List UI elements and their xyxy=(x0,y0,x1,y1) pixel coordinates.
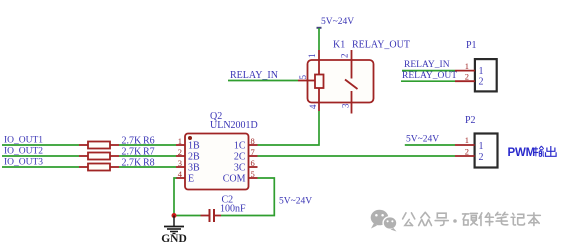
svg-text:5V~24V: 5V~24V xyxy=(279,197,312,207)
svg-text:5V~24V: 5V~24V xyxy=(321,17,354,27)
svg-text:GND: GND xyxy=(161,233,187,244)
hanzi ben (本) xyxy=(528,213,541,226)
svg-text:ULN2001D: ULN2001D xyxy=(210,120,258,131)
pin 5 internal wire xyxy=(308,80,316,82)
pin 8 stub xyxy=(249,144,258,146)
wire RELAY_IN to P1 pin1 xyxy=(402,70,455,72)
svg-text:2: 2 xyxy=(465,72,469,82)
svg-text:1B: 1B xyxy=(188,141,200,152)
pin 1 stub xyxy=(176,144,185,146)
svg-text:1: 1 xyxy=(479,141,484,152)
middle dot xyxy=(453,219,457,223)
pin 6 stub xyxy=(249,166,258,168)
coil K1 xyxy=(315,75,324,89)
switch contact wire xyxy=(351,91,353,103)
svg-text:3: 3 xyxy=(341,103,351,108)
connector P1 xyxy=(455,40,497,91)
watermark text 公众号·硬件笔记本 xyxy=(403,212,541,225)
wire RELAY_IN to K1 pin5 xyxy=(228,80,298,82)
svg-text:3: 3 xyxy=(178,158,182,168)
pin 5 stub xyxy=(249,177,258,179)
wire junction to C2 xyxy=(174,215,201,217)
svg-text:1: 1 xyxy=(465,61,469,71)
wire R6 to U pin1 xyxy=(119,144,176,146)
svg-text:2: 2 xyxy=(178,147,182,157)
svg-text:2C: 2C xyxy=(234,152,246,163)
svg-text:IO_OUT1: IO_OUT1 xyxy=(4,136,43,146)
pin 1 stub xyxy=(318,50,320,60)
junction dot xyxy=(172,213,177,218)
resistor R6 xyxy=(79,136,155,149)
svg-text:PWM: PWM xyxy=(508,147,536,159)
wire U pin8 to K1 pin4 xyxy=(258,111,320,145)
svg-text:5: 5 xyxy=(298,75,308,80)
svg-text:5V~24V: 5V~24V xyxy=(406,135,439,145)
hanzi shu (输) xyxy=(534,146,545,156)
wire 5V~24V to K1 pin1 xyxy=(318,28,320,50)
wire 5V~24V to P2 pin1 xyxy=(405,144,455,146)
svg-text:6: 6 xyxy=(251,158,255,168)
svg-text:2: 2 xyxy=(479,77,484,88)
svg-text:3B: 3B xyxy=(188,163,200,174)
svg-text:RELAY_OUT: RELAY_OUT xyxy=(352,40,410,51)
svg-text:100nF: 100nF xyxy=(220,204,246,215)
wire IO_OUT3 to R8 xyxy=(2,166,79,168)
IC Q2 ULN2001D xyxy=(176,111,258,190)
hanzi chu (出) xyxy=(546,146,557,156)
wire R8 to U pin3 xyxy=(119,166,176,168)
svg-text:2: 2 xyxy=(465,147,469,157)
hanzi zhong (众) xyxy=(419,212,432,225)
wire IO_OUT1 to R6 xyxy=(2,144,79,146)
svg-text:P1: P1 xyxy=(466,40,477,51)
svg-text:1: 1 xyxy=(307,54,317,59)
hanzi hao (号) xyxy=(435,213,448,225)
svg-text:2B: 2B xyxy=(188,152,200,163)
svg-text:RELAY_IN: RELAY_IN xyxy=(230,70,278,81)
resistor R8 xyxy=(79,158,155,171)
pin 7 stub xyxy=(249,155,258,157)
capacitor C2 xyxy=(201,195,247,223)
svg-text:1: 1 xyxy=(479,66,484,77)
hanzi ji (记) xyxy=(511,213,524,225)
pin 4 stub xyxy=(318,103,320,112)
wire U pin7 to P2 pin2 xyxy=(258,155,456,157)
P1 pin 2 stub xyxy=(455,80,475,82)
svg-text:RELAY_OUT: RELAY_OUT xyxy=(402,71,457,81)
svg-text:1: 1 xyxy=(178,136,182,146)
svg-text:IO_OUT3: IO_OUT3 xyxy=(4,158,43,168)
svg-text:RELAY_IN: RELAY_IN xyxy=(404,60,450,70)
P2 pin 1 stub xyxy=(455,144,475,146)
wire R7 to U pin2 xyxy=(119,155,176,157)
pin 4 stub xyxy=(176,177,185,179)
wire U pin5 (COM) to 5V~24V xyxy=(221,178,274,216)
svg-text:2: 2 xyxy=(479,152,484,163)
svg-text:E: E xyxy=(188,174,194,185)
svg-text:COM: COM xyxy=(223,174,246,185)
svg-text:3C: 3C xyxy=(234,163,246,174)
switch common wire xyxy=(351,60,353,79)
relay K1 xyxy=(298,40,410,114)
svg-text:2: 2 xyxy=(340,54,350,59)
pin 3 stub xyxy=(351,103,353,114)
svg-text:1: 1 xyxy=(465,135,469,145)
watermark wechat logo xyxy=(371,210,397,232)
ground xyxy=(161,216,187,244)
wire U pin4 (E) to GND junction xyxy=(174,178,177,216)
hanzi jian (件) xyxy=(479,213,493,226)
svg-text:K1: K1 xyxy=(333,40,345,51)
switch blade xyxy=(345,80,358,90)
svg-text:IO_OUT2: IO_OUT2 xyxy=(4,147,43,157)
connector P2 xyxy=(455,115,498,168)
svg-text:7: 7 xyxy=(251,147,255,157)
wire IO_OUT2 to R7 xyxy=(2,155,79,157)
pin 2 stub xyxy=(351,50,353,60)
pin 3 stub xyxy=(176,166,185,168)
coil wire K1 xyxy=(318,60,320,75)
P1 pin 1 stub xyxy=(455,70,475,72)
svg-text:8: 8 xyxy=(251,136,255,146)
P2 pin 2 stub xyxy=(455,155,475,157)
svg-text:5: 5 xyxy=(251,169,255,179)
hanzi gong (公) xyxy=(403,213,415,226)
svg-text:P2: P2 xyxy=(465,115,476,126)
pin 2 stub xyxy=(176,155,185,157)
wire RELAY_OUT to P1 pin2 xyxy=(401,80,455,82)
hanzi ying (硬) xyxy=(463,213,478,225)
pin1 dot xyxy=(188,136,192,140)
svg-text:4: 4 xyxy=(308,104,318,109)
hanzi bi (笔) xyxy=(496,212,508,225)
power port 5V~24V (top) xyxy=(317,17,355,29)
resistor R7 xyxy=(79,147,155,160)
text PWM output (Chinese) xyxy=(508,146,557,159)
svg-text:1C: 1C xyxy=(234,141,246,152)
